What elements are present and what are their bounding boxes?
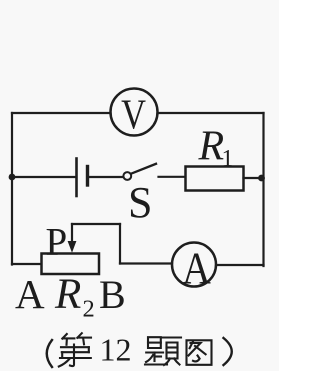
caption close paren	[224, 338, 232, 365]
wire top-right segment	[158, 112, 264, 114]
wire ammeter to right vertical	[216, 264, 264, 266]
svg-text:2: 2	[83, 296, 95, 323]
svg-text:P: P	[46, 221, 68, 264]
caption number 12	[100, 332, 132, 368]
resistor R1	[186, 167, 244, 191]
node junction dot right	[258, 175, 265, 182]
label P	[46, 221, 68, 264]
wire battery to switch	[89, 176, 123, 178]
wire top-left segment	[12, 112, 111, 114]
svg-text:A: A	[15, 271, 45, 317]
svg-text:1: 1	[222, 146, 234, 172]
rheostat slider arrow P	[68, 224, 77, 253]
svg-text:B: B	[99, 272, 126, 317]
wire slider down leg	[119, 224, 121, 264]
wire left vertical	[11, 113, 13, 265]
label R1	[198, 124, 234, 173]
battery cell	[77, 159, 88, 197]
label A terminal	[15, 271, 45, 317]
wire battery feed	[12, 176, 76, 178]
caption character Di (ordinal)	[59, 333, 91, 366]
wire R1 to right vertical	[244, 177, 264, 179]
svg-text:S: S	[128, 178, 152, 227]
svg-text:12: 12	[100, 332, 132, 368]
wire right vertical	[262, 113, 264, 266]
svg-text:V: V	[121, 92, 146, 138]
wire to ammeter	[120, 262, 172, 264]
rheostat R2 body	[42, 254, 100, 275]
wire to rheostat	[12, 263, 41, 265]
label B terminal	[99, 272, 126, 317]
node junction dot left	[9, 174, 16, 181]
wire slider top horizontal	[72, 223, 120, 225]
label R2	[54, 271, 95, 323]
switch S	[123, 164, 185, 180]
svg-text:R: R	[54, 271, 81, 318]
caption character Tu (figure)	[187, 340, 212, 365]
ammeter A	[172, 243, 216, 295]
svg-text:A: A	[182, 244, 211, 294]
voltmeter V	[111, 89, 158, 139]
svg-text:R: R	[198, 124, 225, 170]
caption open paren	[47, 340, 52, 367]
caption character Ti (question)	[145, 337, 181, 365]
label S	[128, 178, 152, 227]
